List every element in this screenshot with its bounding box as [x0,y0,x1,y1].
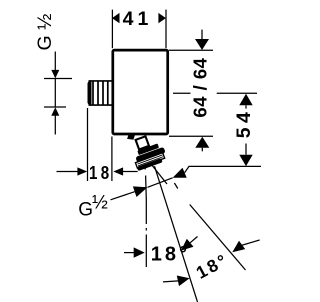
svg-text:18: 18 [89,163,113,183]
svg-text:64 / 64: 64 / 64 [189,57,210,117]
svg-text:41: 41 [123,8,153,30]
svg-text:G: G [78,200,93,221]
svg-text:54: 54 [233,108,255,139]
svg-text:G ½: G ½ [34,14,56,51]
svg-text:18°: 18° [151,243,190,265]
svg-text:½: ½ [92,193,108,214]
